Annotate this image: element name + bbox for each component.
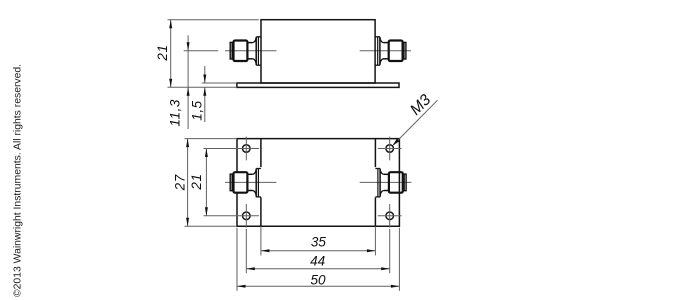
mounting holes (243, 145, 394, 220)
extension line base top (dim 1,5) (202, 82, 237, 84)
centerline (connector axis, bottom view) (225, 181, 276, 183)
connector right (side view) (375, 37, 406, 65)
body (side view) (261, 20, 375, 83)
dimension line 27 (187, 139, 189, 227)
dimension line 21 (bottom view) (205, 149, 207, 216)
svg-text:M3: M3 (407, 91, 435, 119)
svg-text:21: 21 (189, 173, 204, 190)
extension lines for 35 (260, 226, 262, 255)
svg-text:©2013 Wainwright Instruments.: ©2013 Wainwright Instruments. All rights… (13, 64, 24, 297)
svg-text:50: 50 (310, 272, 326, 287)
dimension line 44 (246, 268, 389, 270)
M3 leader line (394, 100, 438, 145)
base plate (side view) (237, 83, 399, 87)
dimension line 1,5 (204, 66, 206, 83)
dimension line 21 (side view) (170, 20, 172, 88)
dimension line 35 (261, 250, 376, 252)
connector left (side view) (230, 37, 261, 65)
body left edge (bottom view) (260, 139, 262, 227)
svg-text:27: 27 (172, 174, 187, 191)
centerline (connector axis, side view) (184, 50, 219, 52)
svg-text:1,5: 1,5 (189, 100, 204, 121)
svg-text:35: 35 (311, 235, 327, 250)
svg-text:21: 21 (155, 44, 170, 61)
extension line base bottom (dims 21/11,3/1,5) (168, 86, 237, 88)
extension lines for 27 (185, 138, 238, 140)
connector left (bottom view) (230, 169, 261, 197)
extension line body top (dim 21 side) (168, 19, 259, 21)
hole centerlines (204, 137, 402, 228)
svg-text:44: 44 (310, 254, 325, 269)
dimension line 11,3 (187, 35, 189, 129)
connector right (bottom view) (375, 169, 406, 197)
body right edge (bottom view) (374, 139, 376, 227)
extension lines for 44 (245, 229, 247, 273)
flange outline (bottom view) (237, 139, 399, 227)
svg-text:11,3: 11,3 (168, 99, 183, 127)
dimension line 50 (237, 285, 399, 287)
extension lines for 50 (236, 228, 238, 291)
